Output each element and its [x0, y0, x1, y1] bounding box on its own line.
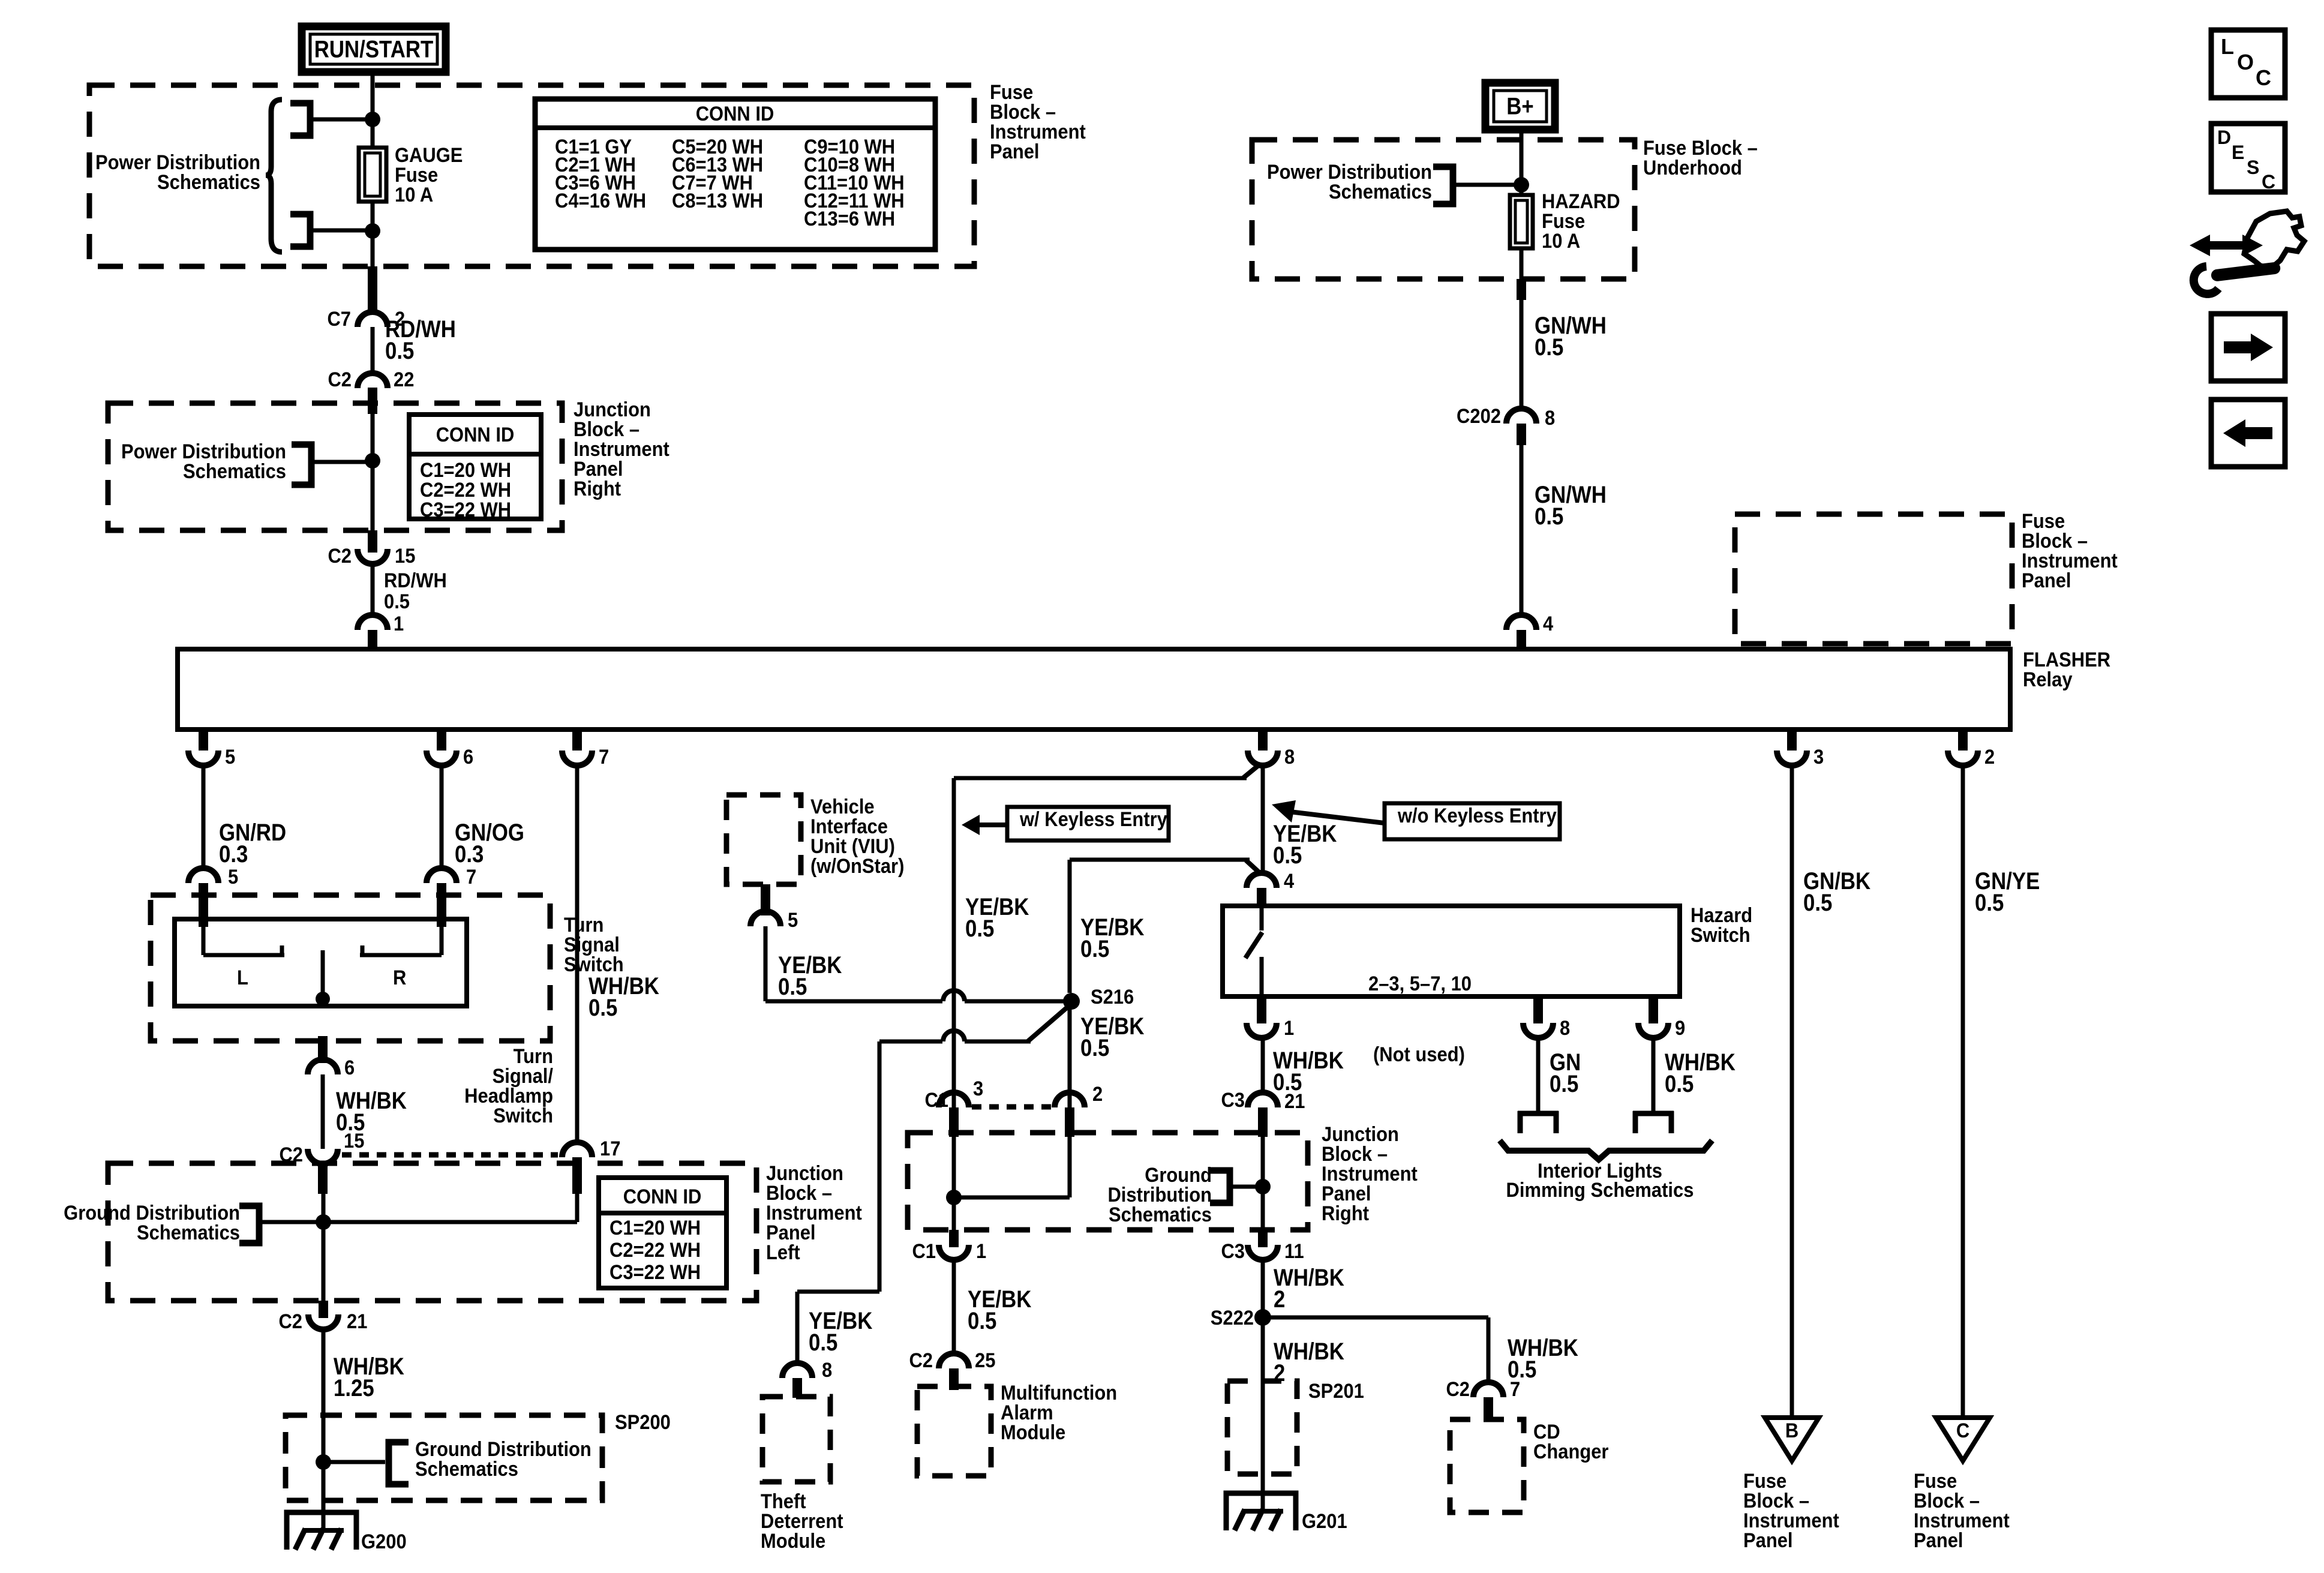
- svg-text:S: S: [2247, 157, 2259, 178]
- blade C2 pin 15: [368, 530, 377, 553]
- svg-text:RUN/START: RUN/START: [314, 35, 434, 62]
- svg-text:CONN ID: CONN ID: [436, 424, 515, 446]
- svg-text:0.3: 0.3: [219, 840, 248, 867]
- connector C3 pin 21: [1248, 1092, 1278, 1107]
- connector flasher pin 5: [188, 751, 218, 766]
- svg-text:S216: S216: [1091, 986, 1134, 1008]
- svg-text:21: 21: [347, 1310, 367, 1333]
- svg-text:0.5: 0.5: [1535, 334, 1563, 361]
- svg-text:0.5: 0.5: [385, 337, 414, 364]
- connector flasher pin 6: [427, 751, 457, 766]
- svg-text:L: L: [2221, 34, 2234, 59]
- svg-text:0.5: 0.5: [1550, 1070, 1578, 1097]
- svg-text:1: 1: [1284, 1017, 1294, 1040]
- wire theft branch horizontal: [879, 1040, 942, 1044]
- blade flasher pin 3: [1787, 730, 1797, 751]
- connector flasher pin 4: [1506, 615, 1536, 630]
- wire RUN/START to gauge fuse: [371, 72, 375, 148]
- connector C2 pin 7 (CD): [1473, 1382, 1503, 1397]
- wire hazard fuse to C202: [1520, 248, 1524, 409]
- wire S222 to G201: [1261, 1317, 1265, 1512]
- connector C1 pin 1: [939, 1245, 969, 1260]
- blade flasher pin 2: [1958, 730, 1968, 751]
- dashed box Junction Block - Instrument Panel Right (upper): [108, 403, 562, 530]
- bracket Power Distribution Schematics (underhood): [1433, 167, 1453, 204]
- connector turn signal switch pin 5: [188, 868, 218, 883]
- node C3 riser: [1255, 1179, 1271, 1194]
- wire TSS-6 to C2-15 WH/BK: [321, 1074, 325, 1149]
- svg-text:E: E: [2232, 142, 2244, 163]
- connector flasher pin 3: [1777, 751, 1807, 766]
- svg-text:0.5: 0.5: [384, 590, 410, 613]
- svg-text:C2: C2: [328, 368, 352, 391]
- connector hazard pin 9: [1638, 1023, 1668, 1038]
- connector C2 pin 25: [939, 1353, 969, 1368]
- svg-text:25: 25: [975, 1349, 995, 1372]
- diagonal into pin4 wire: [1246, 860, 1261, 874]
- blade C2 pin 7 (CD): [1484, 1397, 1493, 1419]
- blade flasher pin 7: [572, 730, 582, 751]
- svg-text:10 A: 10 A: [395, 184, 433, 206]
- blade C2-15 into junction block left: [318, 1164, 328, 1194]
- node below gauge fuse: [365, 223, 380, 239]
- svg-text:G200: G200: [361, 1530, 407, 1553]
- blade flasher pin 8: [1258, 730, 1268, 751]
- svg-text:Schematics: Schematics: [1329, 181, 1432, 203]
- svg-text:7: 7: [599, 746, 609, 769]
- ground G200: [287, 1512, 356, 1550]
- TSS right contact wire (R): [440, 927, 444, 955]
- blade TSS pin 5: [199, 883, 208, 927]
- wire bracket to node (ground distribution left): [259, 1220, 323, 1224]
- node above hazard fuse: [1514, 177, 1529, 193]
- wire C202 to flasher pin 4 GN/WH: [1520, 445, 1524, 616]
- svg-text:17: 17: [600, 1137, 620, 1160]
- dashed box splice SP201: [1227, 1381, 1297, 1474]
- svg-text:CONN ID: CONN ID: [623, 1185, 702, 1208]
- svg-text:8: 8: [822, 1359, 832, 1382]
- svg-text:9: 9: [1675, 1017, 1685, 1040]
- svg-text:C2: C2: [328, 545, 352, 568]
- svg-text:SP201: SP201: [1308, 1380, 1364, 1403]
- off-page triangle B: [1765, 1418, 1819, 1461]
- wire terminal-to-node upper: [310, 118, 373, 122]
- svg-text:O: O: [2237, 50, 2254, 74]
- blade C2 pin 25: [949, 1368, 959, 1390]
- branch diagonal pin8 to w/keyless run: [1243, 764, 1260, 778]
- svg-text:Schematics: Schematics: [157, 171, 260, 194]
- svg-text:L: L: [237, 966, 248, 989]
- svg-text:SP200: SP200: [615, 1411, 671, 1434]
- svg-text:6: 6: [463, 746, 473, 769]
- svg-text:C3=22 WH: C3=22 WH: [420, 499, 511, 521]
- svg-text:2: 2: [1984, 746, 1995, 769]
- power feed label RUN/START: [302, 26, 446, 72]
- svg-text:15: 15: [344, 1130, 364, 1152]
- svg-text:0.5: 0.5: [1080, 935, 1109, 962]
- wire C1-1 to C2-25 YE/BK: [952, 1259, 956, 1354]
- svg-text:Panel: Panel: [1914, 1529, 1963, 1552]
- svg-text:10 A: 10 A: [1542, 230, 1580, 253]
- svg-text:Changer: Changer: [1533, 1440, 1609, 1463]
- wire flasher pin 5 GN/RD: [202, 766, 206, 869]
- connector VIU pin 5: [750, 911, 780, 926]
- svg-text:B: B: [1785, 1419, 1798, 1442]
- terminal fork (hazard 8): [1518, 1111, 1559, 1116]
- power feed label B+: [1485, 83, 1555, 130]
- svg-text:Right: Right: [1322, 1202, 1369, 1225]
- wire theft branch down: [878, 1041, 882, 1292]
- svg-text:2: 2: [1092, 1083, 1103, 1106]
- svg-text:11: 11: [1284, 1240, 1304, 1263]
- svg-text:Panel: Panel: [990, 140, 1040, 163]
- svg-text:Panel: Panel: [1743, 1529, 1793, 1552]
- node junction block right: [946, 1190, 962, 1205]
- connector hazard pin 8: [1523, 1023, 1553, 1038]
- wire SP200 node to bracket: [323, 1460, 385, 1464]
- svg-text:1.25: 1.25: [334, 1374, 374, 1401]
- switch body turn signal switch: [175, 919, 467, 1006]
- blade theft deterrent pin 8: [792, 1378, 802, 1398]
- wire flasher pin 7 WH/BK to connector 17: [575, 766, 580, 1142]
- legend box DESC: [2211, 124, 2285, 192]
- svg-text:Switch: Switch: [564, 953, 624, 976]
- wire flasher pin 3 GN/BK: [1790, 766, 1794, 1418]
- svg-text:5: 5: [788, 909, 798, 932]
- svg-text:4: 4: [1543, 613, 1553, 635]
- connector C1 pin 3: [939, 1092, 969, 1107]
- dashed box Theft Deterrent Module: [762, 1397, 830, 1482]
- svg-text:6: 6: [344, 1056, 355, 1079]
- svg-text:0.5: 0.5: [588, 994, 617, 1021]
- terminal stub upper (gauge fuse feed): [290, 103, 310, 136]
- svg-text:0.5: 0.5: [1535, 503, 1563, 530]
- svg-text:(Not used): (Not used): [1373, 1043, 1465, 1066]
- svg-text:CONN ID: CONN ID: [696, 103, 774, 125]
- connector turn signal switch pin 7: [427, 868, 457, 883]
- svg-text:Underhood: Underhood: [1643, 157, 1742, 179]
- callout box w/o Keyless Entry: [1385, 803, 1560, 839]
- svg-text:7: 7: [466, 866, 476, 888]
- svg-text:R: R: [393, 966, 406, 989]
- svg-text:0.5: 0.5: [1803, 889, 1832, 916]
- svg-text:Left: Left: [766, 1241, 800, 1264]
- blade C2 pin 21: [319, 1301, 328, 1318]
- svg-text:C202: C202: [1457, 405, 1501, 428]
- svg-text:C2: C2: [1446, 1378, 1470, 1401]
- svg-text:B+: B+: [1506, 92, 1533, 119]
- svg-text:Module: Module: [1001, 1421, 1065, 1444]
- conn id table (fuse block IP): [535, 99, 935, 250]
- svg-text:C: C: [1956, 1419, 1969, 1442]
- connector TSS pin 6: [308, 1059, 338, 1074]
- wire S216 to theft-deterrent branch diagonal: [1028, 1004, 1071, 1041]
- legend box arrow left: [2211, 400, 2285, 467]
- svg-text:0.5: 0.5: [968, 1307, 996, 1334]
- blade hazard pin 1: [1257, 996, 1266, 1023]
- conn id table (junction block right): [409, 415, 541, 519]
- ground G201: [1226, 1493, 1296, 1530]
- blade flasher pin 1: [368, 630, 377, 652]
- svg-text:0.5: 0.5: [965, 915, 994, 942]
- wire hop (VIU wire over riser): [943, 990, 965, 1001]
- svg-text:Panel: Panel: [2022, 569, 2071, 592]
- connector C2 pin 15: [358, 549, 388, 564]
- node TSS common: [316, 992, 330, 1006]
- svg-text:(w/OnStar): (w/OnStar): [810, 855, 904, 878]
- connector C202 pin 8: [1506, 409, 1536, 424]
- svg-text:8: 8: [1560, 1017, 1570, 1040]
- connector flasher pin 2: [1948, 751, 1978, 766]
- svg-text:1: 1: [976, 1240, 986, 1263]
- svg-text:C7: C7: [327, 308, 351, 331]
- fuse HAZARD 10 A: [1510, 195, 1533, 248]
- blade C2 pin 22: [368, 388, 377, 414]
- wire C2-15 down through junction block left: [322, 1194, 326, 1301]
- svg-text:0.5: 0.5: [1080, 1034, 1109, 1061]
- wire C2-15 to flasher pin 1 RD/WH: [371, 564, 375, 616]
- wire terminal-to-node lower: [310, 229, 373, 233]
- svg-text:C: C: [2262, 171, 2275, 193]
- svg-text:0.5: 0.5: [809, 1329, 837, 1356]
- svg-text:G201: G201: [1302, 1510, 1347, 1533]
- TSS common pole: [321, 950, 325, 1006]
- svg-text:8: 8: [1545, 407, 1555, 430]
- svg-text:C3=22 WH: C3=22 WH: [609, 1261, 701, 1284]
- wire hazard-8 to dimmer GN: [1536, 1037, 1541, 1114]
- svg-text:2–3, 5–7, 10: 2–3, 5–7, 10: [1368, 972, 1472, 995]
- blade VIU pin 5: [761, 884, 770, 915]
- bracket Ground Distribution Schematics (SP200): [389, 1442, 409, 1484]
- wire S216 to horizontal w/o-keyless run: [1068, 860, 1072, 993]
- connector theft deterrent pin 8: [782, 1363, 812, 1378]
- svg-text:C4=16 WH: C4=16 WH: [555, 190, 646, 212]
- blade C7 pin 2: [368, 266, 377, 312]
- svg-text:C3: C3: [1221, 1089, 1245, 1112]
- wire bracket to node (underhood): [1453, 183, 1521, 187]
- connector C2 pin 22: [358, 373, 388, 388]
- svg-text:D: D: [2217, 127, 2231, 148]
- wire w/keyless horizontal run: [954, 776, 1247, 781]
- blade flasher pin 6: [437, 730, 446, 751]
- dotted connector face 3-2: [972, 1104, 1053, 1110]
- wire flasher pin 2 GN/YE: [1961, 766, 1965, 1418]
- svg-text:C13=6 WH: C13=6 WH: [804, 208, 895, 230]
- dashed box splice SP200: [286, 1415, 602, 1500]
- blade connector 17: [572, 1157, 582, 1194]
- svg-text:7: 7: [1510, 1378, 1520, 1401]
- blade flasher pin 4: [1517, 630, 1526, 652]
- svg-text:15: 15: [395, 545, 415, 568]
- conn id table (junction block left): [599, 1178, 726, 1288]
- dashed box Fuse Block - Underhood: [1252, 140, 1635, 279]
- dashed box CD Changer: [1450, 1419, 1524, 1512]
- svg-text:Switch: Switch: [493, 1104, 553, 1127]
- dashed box Junction Block - Instrument Panel Right (lower): [908, 1133, 1308, 1230]
- blade connector 2: [1065, 1107, 1074, 1137]
- blade C202 pin 8: [1517, 424, 1526, 445]
- svg-text:S222: S222: [1211, 1307, 1254, 1329]
- svg-text:Relay: Relay: [2023, 668, 2073, 691]
- svg-text:C1: C1: [912, 1240, 936, 1263]
- blade C3 pin 11: [1258, 1230, 1268, 1247]
- svg-text:4: 4: [1284, 870, 1294, 893]
- svg-text:C2: C2: [909, 1349, 933, 1372]
- connector C7 pin 2: [358, 312, 388, 327]
- blade C1 pin 3: [949, 1107, 959, 1137]
- dashed box Fuse Block - Instrument Panel (empty, right): [1735, 514, 2012, 644]
- wire C3-11 to S222 WH/BK: [1261, 1259, 1265, 1317]
- svg-text:3: 3: [973, 1077, 983, 1100]
- wire hop (theft branch over riser): [943, 1031, 965, 1041]
- svg-text:Dimming Schematics: Dimming Schematics: [1506, 1179, 1694, 1202]
- wire flasher pin 8 to hazard switch pin 4 YE/BK: [1261, 766, 1265, 872]
- svg-text:Schematics: Schematics: [1109, 1203, 1212, 1226]
- wire flasher pin 6 GN/OG: [440, 766, 444, 869]
- connector hazard switch pin 4: [1247, 873, 1277, 888]
- node splice SP200: [316, 1454, 331, 1470]
- svg-text:2: 2: [1274, 1286, 1285, 1313]
- terminal stub lower (gauge fuse output): [290, 214, 310, 247]
- svg-text:5: 5: [225, 746, 235, 769]
- arrow w/ Keyless Entry: [962, 815, 980, 835]
- svg-text:Schematics: Schematics: [415, 1458, 518, 1481]
- svg-text:5: 5: [228, 866, 238, 888]
- svg-text:0.5: 0.5: [1975, 889, 2004, 916]
- svg-text:C1: C1: [924, 1089, 948, 1112]
- dashed box Junction Block - Instrument Panel Left: [108, 1163, 756, 1301]
- svg-text:0.5: 0.5: [1665, 1070, 1694, 1097]
- wire through junction block: [371, 414, 375, 530]
- svg-text:0.3: 0.3: [455, 840, 484, 867]
- wire C2-21 to G200 WH/BK: [322, 1329, 326, 1532]
- wire w/keyless riser to C1-3: [952, 778, 956, 1107]
- legend box arrow right: [2211, 314, 2285, 381]
- arrow w/o Keyless Entry: [1272, 800, 1296, 822]
- wire C1-3 through junction block: [952, 1137, 956, 1233]
- svg-text:w/o Keyless Entry: w/o Keyless Entry: [1397, 804, 1557, 827]
- svg-text:Right: Right: [574, 478, 621, 500]
- svg-text:0.5: 0.5: [778, 973, 807, 1000]
- connector flasher pin 8: [1248, 751, 1278, 766]
- blade below dashed (hazard): [1517, 279, 1526, 300]
- blade hazard switch pin 4: [1257, 888, 1266, 908]
- svg-text:Schematics: Schematics: [183, 460, 286, 483]
- svg-text:21: 21: [1284, 1090, 1305, 1113]
- wire node to connector 17 riser: [323, 1220, 577, 1224]
- svg-text:22: 22: [394, 368, 414, 391]
- connector C3 pin 11: [1248, 1245, 1278, 1260]
- wire C7 to C2-22 RD/WH: [371, 327, 375, 372]
- connector 17 (junction block left): [562, 1142, 592, 1157]
- svg-text:Switch: Switch: [1691, 924, 1750, 947]
- dashed box Fuse Block - Instrument Panel (top left): [89, 85, 974, 266]
- off-page triangle C: [1936, 1418, 1990, 1461]
- wire B+ to hazard fuse: [1520, 130, 1524, 196]
- blade C3 pin 21: [1258, 1107, 1268, 1137]
- brace for Power Distribution Schematics (fuse block IP): [266, 100, 282, 252]
- switch box Hazard Switch: [1223, 906, 1680, 996]
- svg-text:C3: C3: [1221, 1240, 1245, 1263]
- connector 2 (keyless): [1055, 1092, 1085, 1107]
- bracket Power Distribution Schematics (junction block): [292, 445, 311, 485]
- connector flasher pin 1: [358, 615, 388, 630]
- legend icon harness arrow and wrench: [2190, 235, 2210, 256]
- fuse GAUGE 10 A: [359, 148, 386, 202]
- relay box FLASHER: [178, 649, 2010, 730]
- svg-text:C1=20 WH: C1=20 WH: [609, 1217, 701, 1239]
- legend box LOC: [2211, 30, 2285, 98]
- wire VIU-5 to S216 YE/BK: [764, 926, 768, 1001]
- blade C1 pin 1: [949, 1230, 959, 1247]
- wire S216 down to connector 2: [1068, 1001, 1072, 1107]
- dashed box Vehicle Interface Unit: [726, 795, 801, 884]
- blade flasher pin 5: [199, 730, 208, 751]
- underbrace interior lights: [1500, 1140, 1712, 1160]
- wire gauge fuse to C7 connector: [371, 202, 375, 300]
- dotted connector face 15-17: [342, 1152, 558, 1158]
- connector hazard pin 1: [1247, 1023, 1277, 1038]
- TSS left contact wire (L): [202, 927, 206, 955]
- bracket Ground Distribution Schematics (left): [239, 1206, 259, 1243]
- terminal fork (hazard 9): [1633, 1111, 1674, 1116]
- svg-text:C2=22 WH: C2=22 WH: [609, 1239, 701, 1262]
- svg-text:0.5: 0.5: [1273, 842, 1302, 869]
- callout box w/ Keyless Entry: [1007, 807, 1169, 840]
- blade hazard pin 9: [1649, 996, 1658, 1023]
- wire bracket to node (junction block): [311, 460, 373, 464]
- blade TSS pin 7: [437, 883, 446, 927]
- wire S222 to CD changer WH/BK: [1263, 1316, 1488, 1320]
- svg-text:C8=13 WH: C8=13 WH: [672, 190, 763, 212]
- svg-text:C2: C2: [278, 1310, 302, 1333]
- svg-text:1: 1: [394, 613, 404, 635]
- svg-text:w/ Keyless Entry: w/ Keyless Entry: [1019, 808, 1167, 831]
- connector flasher pin 7: [562, 751, 592, 766]
- svg-text:C: C: [2256, 65, 2271, 90]
- blade TSS pin 6: [318, 1036, 328, 1063]
- wire bracket to C3 riser node: [1230, 1185, 1263, 1189]
- svg-text:8: 8: [1284, 746, 1295, 769]
- dashed box Turn Signal Switch: [151, 895, 550, 1041]
- splice S222: [1254, 1309, 1271, 1326]
- connector C2 pin 21: [308, 1314, 338, 1329]
- svg-text:Module: Module: [761, 1530, 825, 1553]
- node above gauge fuse: [365, 112, 380, 127]
- svg-text:RD/WH: RD/WH: [384, 569, 447, 592]
- dashed box Multifunction Alarm Module: [917, 1386, 991, 1476]
- bracket Ground Distribution Schematics (middle): [1210, 1170, 1230, 1203]
- hazard switch pole: [1260, 906, 1264, 930]
- node ground distribution left: [316, 1214, 331, 1230]
- wire node to connector 2 riser: [954, 1196, 1070, 1200]
- blade hazard pin 8: [1533, 996, 1543, 1023]
- wire hazard-9 to dimmer WH/BK: [1652, 1037, 1656, 1114]
- svg-text:Schematics: Schematics: [137, 1221, 240, 1244]
- svg-text:3: 3: [1813, 746, 1824, 769]
- wire hazard-1 to C3-21 WH/BK: [1261, 1037, 1265, 1093]
- splice S216: [1063, 993, 1080, 1010]
- node in junction block: [365, 453, 380, 469]
- wire C3-21 through junction block: [1261, 1137, 1265, 1233]
